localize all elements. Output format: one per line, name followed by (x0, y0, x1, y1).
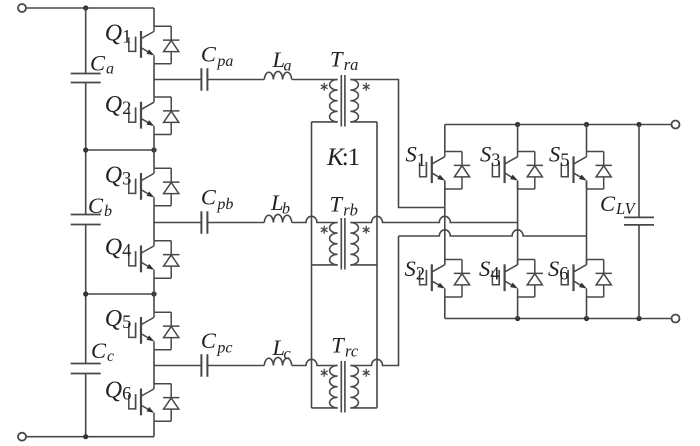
transistor Q3 (129, 168, 180, 206)
transistor Q2 (129, 97, 180, 135)
svg-text:Cpc: Cpc (201, 328, 233, 357)
wire secondary star-point vertical (376, 122, 378, 408)
wire Q-leg verticals (153, 8, 155, 437)
inductor La (264, 71, 291, 79)
transistor S6 (561, 260, 612, 298)
svg-text:CLV: CLV (600, 191, 637, 218)
wire Trb secondary top to S3 mid with hops (350, 216, 517, 222)
svg-text:Cb: Cb (88, 193, 112, 220)
wire LV top rail (445, 124, 672, 126)
wire S5 leg verticals (586, 125, 588, 319)
wire Trc secondary to S5 mid with hops (399, 230, 587, 236)
transistor Q5 (129, 312, 180, 350)
svg-text:Trb: Trb (330, 192, 358, 220)
svg-text:Ca: Ca (90, 51, 114, 78)
svg-text:Cpa: Cpa (201, 42, 234, 71)
capacitor Cpb (201, 211, 207, 233)
svg-text:S3: S3 (480, 142, 501, 172)
wire Cpb to Lb (207, 222, 264, 224)
wire phase c to Cpc (154, 365, 201, 367)
capacitor Cb (71, 215, 101, 225)
capacitor Ca (71, 74, 101, 83)
node top rail S3 (515, 122, 520, 127)
wire S1 leg verticals (444, 125, 446, 319)
transistor S2 (420, 260, 471, 298)
node bottom rail / cap rail junction (83, 434, 88, 439)
wire mid rail 1 (86, 149, 154, 151)
transformer Tra (312, 75, 378, 127)
wire top rail (26, 7, 154, 9)
svg-text:Q3: Q3 (105, 162, 132, 189)
svg-text:Lc: Lc (272, 335, 291, 362)
transistor S4 (492, 260, 543, 298)
input terminal bottom-left (18, 433, 26, 441)
svg-text:S2: S2 (405, 256, 426, 285)
wire Trc secondary top riser (350, 236, 398, 366)
inductor Lb (264, 214, 291, 222)
wire mid rail 2 (86, 293, 154, 295)
transistor S5 (561, 152, 612, 190)
svg-text:Q1: Q1 (105, 21, 132, 48)
svg-text:Cc: Cc (91, 338, 114, 365)
wire HV capacitor rail (85, 8, 87, 437)
wire La to Tra primary (292, 79, 338, 81)
svg-text:S6: S6 (548, 256, 569, 285)
svg-text:Tra: Tra (330, 46, 358, 74)
capacitor Cc (71, 364, 101, 374)
capacitor Cpa (201, 68, 207, 90)
node mid rail 2 right (151, 291, 156, 296)
svg-text:S4: S4 (479, 256, 500, 285)
svg-text:Q2: Q2 (105, 92, 132, 119)
node top rail S5 (584, 122, 589, 127)
wire S3 leg verticals (517, 125, 519, 319)
wire Lc to Trc primary with hop over star point (292, 359, 338, 365)
svg-text:Q6: Q6 (105, 378, 132, 405)
transistor S1 (420, 152, 471, 190)
output terminal top-right (672, 121, 680, 129)
svg-text:S5: S5 (549, 142, 570, 172)
input terminal top-left (18, 4, 26, 12)
svg-text:Trc: Trc (331, 333, 359, 361)
output terminal bottom-right (672, 315, 680, 323)
node mid rail 2 left (83, 291, 88, 296)
node bottom rail S4 (515, 316, 520, 321)
node mid rail 1 left (83, 147, 88, 152)
node top rail CLV (636, 122, 641, 127)
transformer Trc (312, 361, 378, 413)
svg-text:La: La (272, 47, 292, 74)
transistor S3 (492, 152, 543, 190)
transformer Trb (312, 218, 378, 270)
node top rail / cap rail junction (83, 5, 88, 10)
inductor Lc (264, 357, 291, 365)
wire phase b to Cpb (154, 222, 201, 224)
node bottom rail CLV (636, 316, 641, 321)
wire LV bottom rail (445, 318, 672, 320)
node mid rail 1 right (151, 147, 156, 152)
wire Cpa to La (207, 79, 264, 81)
svg-text:Q4: Q4 (105, 235, 132, 262)
svg-text:S1: S1 (406, 142, 427, 172)
transistor Q1 (129, 26, 180, 64)
wire phase a to Cpa (154, 79, 201, 81)
capacitor Cpc (201, 354, 207, 376)
transistor Q4 (129, 241, 180, 279)
wire Tra secondary top to S1 mid (350, 80, 444, 208)
svg-text:Lb: Lb (270, 190, 290, 217)
wire Cpc to Lc (207, 365, 264, 367)
svg-text:K:1: K:1 (326, 144, 359, 171)
svg-text:Q5: Q5 (105, 306, 132, 333)
wire bottom rail (26, 436, 154, 438)
transistor Q6 (129, 384, 180, 422)
wire Lb to Trb primary with hop over star point (292, 216, 338, 222)
wire CLV leads (638, 125, 640, 319)
svg-text:Cpb: Cpb (201, 185, 234, 214)
capacitor CLV (624, 217, 654, 225)
node bottom rail S6 (584, 316, 589, 321)
wire primary star-point vertical (311, 122, 313, 408)
